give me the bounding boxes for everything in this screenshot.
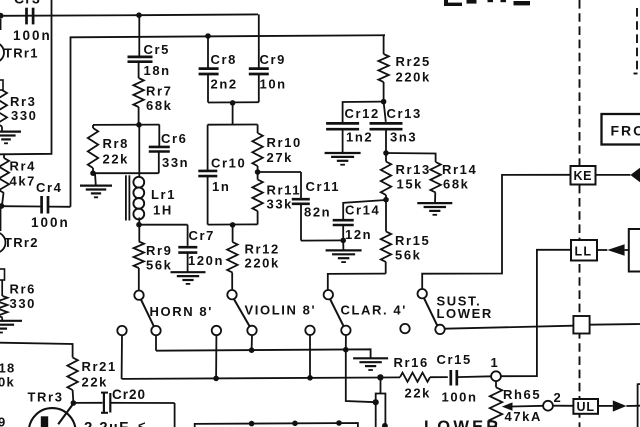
junction dot TRr3 collector bbox=[71, 400, 77, 406]
junction dot bus1/CLAR bbox=[343, 347, 349, 353]
svg-text:Cr4: Cr4 bbox=[36, 180, 62, 195]
HORN row idle contact bbox=[117, 326, 126, 335]
value 100n of Cr3 bbox=[13, 28, 52, 43]
label LOWER (sustain) bbox=[437, 306, 493, 321]
svg-text:100n: 100n bbox=[442, 390, 478, 405]
svg-text:TRr1: TRr1 bbox=[4, 46, 39, 61]
resistor Rr8 bbox=[88, 125, 98, 173]
svg-text:Rr16: Rr16 bbox=[394, 355, 429, 370]
wire HORN landing contact down to bus1 bbox=[155, 335, 157, 350]
resistor Rr14 bbox=[430, 162, 440, 203]
svg-text:Rr25: Rr25 bbox=[396, 54, 431, 69]
label Cr14 bbox=[345, 203, 380, 218]
junction dot at Cr14 bottom bbox=[340, 238, 346, 244]
svg-text:68k: 68k bbox=[146, 98, 173, 113]
svg-text:Rr3: Rr3 bbox=[10, 94, 36, 109]
svg-text:Rh65: Rh65 bbox=[503, 387, 541, 402]
svg-text:Cr15: Cr15 bbox=[437, 352, 472, 367]
value 27k of Rr10 bbox=[267, 150, 294, 165]
value 1n2 of Cr12 bbox=[346, 130, 373, 145]
svg-text:HORN 8': HORN 8' bbox=[150, 304, 213, 319]
junction dot bus2/output box bbox=[377, 374, 383, 380]
value 22k of Rr16 bbox=[405, 386, 432, 401]
SUST blade landing contact bbox=[435, 325, 444, 334]
svg-text:VIOLIN 8': VIOLIN 8' bbox=[245, 303, 317, 318]
label Cr4 bbox=[36, 180, 62, 195]
svg-text:Lr1: Lr1 bbox=[151, 187, 176, 202]
switch HORN 8' blade bbox=[141, 299, 154, 327]
junction dot bus1/VIOLIN bbox=[249, 347, 255, 353]
svg-text:22k: 22k bbox=[82, 375, 109, 390]
wire LL to arrow and right box bbox=[597, 249, 629, 251]
svg-text:120n: 120n bbox=[188, 253, 224, 268]
junction dot bottom bus 1 bbox=[249, 421, 255, 427]
label Rr3 bbox=[10, 94, 36, 109]
label Cr20 bbox=[112, 387, 146, 402]
svg-text:220k: 220k bbox=[396, 70, 431, 85]
ground below Rr8 bbox=[80, 173, 112, 197]
wire corner at right edge bbox=[638, 384, 640, 427]
resistor Rr7 bbox=[133, 62, 143, 125]
stub wire down to Cr10/Rr10 rail bbox=[232, 103, 234, 125]
capacitor Cr13 bbox=[370, 102, 403, 153]
label Cr5 bbox=[144, 42, 170, 57]
junction dot Rr10/Rr11/Cr11 bbox=[255, 169, 261, 175]
wire node B to Rr8 and Cr6 tops bbox=[93, 124, 160, 126]
capacitor Cr6 bbox=[149, 125, 170, 174]
component box at right edge bbox=[629, 229, 640, 272]
switch SUST blade bbox=[424, 298, 438, 326]
svg-text:220k: 220k bbox=[245, 256, 280, 271]
svg-text:Rr14: Rr14 bbox=[442, 162, 477, 177]
value 10n of Cr9 bbox=[260, 77, 287, 92]
VIOLIN blade landing contact bbox=[247, 326, 256, 335]
svg-text:9: 9 bbox=[0, 415, 7, 427]
svg-text:100n: 100n bbox=[13, 28, 52, 43]
wire from left node through Cr4 up to node A bbox=[2, 35, 386, 207]
wire Cr20 output down at x174 bbox=[174, 403, 176, 427]
label TRr3 bbox=[28, 390, 64, 405]
svg-text:56k: 56k bbox=[395, 248, 422, 263]
svg-text:1n: 1n bbox=[212, 179, 230, 194]
svg-text:Rr6: Rr6 bbox=[10, 282, 36, 297]
svg-text:10n: 10n bbox=[260, 77, 287, 92]
value 330 of Rr6 bbox=[10, 296, 37, 311]
svg-text:Cr14: Cr14 bbox=[345, 203, 380, 218]
svg-text:33n: 33n bbox=[162, 155, 189, 170]
arrow into KE line (from right edge) bbox=[630, 168, 640, 182]
value 220k of Rr25 bbox=[396, 70, 431, 85]
capacitor Cr9 with wire from top bus corner bbox=[249, 14, 269, 102]
pin label 2 bbox=[554, 390, 563, 405]
label Rr12 bbox=[245, 242, 280, 257]
arrow into LL line bbox=[607, 244, 624, 255]
value 220k of Rr12 bbox=[245, 256, 280, 271]
value 15k of Rr13 bbox=[397, 177, 424, 192]
wire rail Cr10-bottom to Rr11-bottom bbox=[208, 223, 258, 225]
wire CLAR landing contact down to bus1 bbox=[345, 335, 347, 350]
value 2.2uF of Cr20 (cut at bottom) bbox=[84, 418, 146, 427]
label Rr4 bbox=[10, 159, 36, 174]
svg-text:82n: 82n bbox=[304, 205, 331, 220]
value 1n of Cr10 bbox=[212, 179, 230, 194]
svg-text:1H: 1H bbox=[153, 203, 173, 218]
VIOLIN row wire2 contact bbox=[212, 326, 221, 335]
node dot at left edge on top wire bbox=[0, 13, 4, 19]
capacitor Cr12 bbox=[326, 123, 359, 152]
label Cr10 bbox=[211, 156, 246, 171]
CLAR row wire2 contact bbox=[305, 326, 314, 335]
wire KE line down to SUST switch bbox=[422, 175, 570, 289]
capacitor Cr7 bbox=[178, 225, 197, 272]
switch CLAR 4' blade bbox=[330, 299, 344, 327]
label TRr2 bbox=[4, 235, 39, 250]
label Rr16 bbox=[394, 355, 429, 370]
resistor Rr4 (half visible at left edge) bbox=[0, 154, 9, 205]
svg-text:Cr12: Cr12 bbox=[345, 106, 380, 121]
resistor Rr6 (half visible at left edge) bbox=[0, 280, 8, 320]
ground below Rr14 bbox=[417, 203, 452, 215]
label Cr7 bbox=[189, 228, 215, 243]
value 56k of Rr15 bbox=[395, 248, 422, 263]
label Rr13 bbox=[396, 162, 431, 177]
partial title text E040Z (cut at top edge) bbox=[444, 0, 530, 6]
label Cr11 bbox=[306, 179, 341, 194]
value 4k7 bbox=[10, 174, 37, 189]
value 1H of Lr1 bbox=[153, 203, 173, 218]
svg-text:Rr13: Rr13 bbox=[396, 162, 431, 177]
svg-text:1: 1 bbox=[491, 355, 500, 370]
resistor Rr10 bbox=[252, 125, 262, 173]
value 100n of Cr15 bbox=[442, 390, 478, 405]
capacitor Cr5 bbox=[128, 57, 153, 62]
svg-text:27k: 27k bbox=[267, 150, 294, 165]
output box (cut at bottom edge) bbox=[376, 377, 386, 427]
svg-text:18: 18 bbox=[0, 361, 16, 376]
box FROM (cut at right edge) bbox=[602, 114, 640, 145]
value 22k of Rr21 bbox=[82, 375, 109, 390]
svg-text:CLAR. 4': CLAR. 4' bbox=[341, 303, 407, 318]
svg-text:Cr6: Cr6 bbox=[161, 131, 187, 146]
label TRr1 bbox=[4, 46, 39, 61]
junction dot at Rr13 bottom bbox=[383, 197, 389, 203]
label Rr8 bbox=[103, 136, 129, 151]
wire LL line down to terminal 1 bbox=[501, 250, 571, 376]
wire bus2 to Rr16 bbox=[122, 377, 400, 379]
wire junction to Cr11 bbox=[258, 171, 301, 173]
svg-text:Rr21: Rr21 bbox=[82, 359, 117, 374]
CLAR blade landing contact bbox=[341, 326, 350, 335]
svg-text:LL: LL bbox=[575, 244, 593, 258]
capacitor Cr3 (in top wire) bbox=[27, 8, 34, 25]
arrow out of UL (pointing right) bbox=[613, 400, 627, 411]
value 33k of Rr11 bbox=[267, 197, 294, 212]
wire node C to Cr7 bbox=[139, 224, 188, 226]
ground below Rr3 bbox=[0, 132, 21, 144]
switch VIOLIN 8' upper contact bbox=[227, 290, 236, 299]
svg-text:330: 330 bbox=[11, 108, 38, 123]
svg-text:2n2: 2n2 bbox=[211, 77, 238, 92]
switch SUST upper contact bbox=[418, 289, 427, 298]
wire Rr8 bottom to Cr6 bottom bbox=[93, 172, 159, 174]
svg-text:2.2µF: 2.2µF bbox=[84, 419, 130, 427]
value 82n of Cr11 bbox=[304, 205, 331, 220]
wire collector to Cr20 bbox=[73, 402, 102, 404]
value 330 of Rr3 bbox=[11, 108, 38, 123]
junction dot on top bus bbox=[136, 12, 142, 18]
wire VIOLIN row contact down to bus2 bbox=[215, 335, 217, 378]
svg-text:Cr8: Cr8 bbox=[211, 52, 237, 67]
label Cr6 bbox=[161, 131, 187, 146]
label Cr9 bbox=[260, 52, 286, 67]
svg-text:Cr11: Cr11 bbox=[306, 179, 341, 194]
label Rh65 bbox=[503, 387, 541, 402]
capacitor Cr20 (electrolytic) bbox=[101, 392, 175, 414]
label Cr15 bbox=[437, 352, 472, 367]
svg-text:3n3: 3n3 bbox=[390, 130, 417, 145]
svg-text:UL: UL bbox=[577, 400, 595, 414]
wire Cr11 bottom to Cr14 bottom dot bbox=[301, 239, 343, 241]
capacitor Cr15 bbox=[451, 370, 492, 386]
label LOWER (bottom, cut at edge) bbox=[424, 418, 501, 427]
svg-text:LOWER: LOWER bbox=[437, 306, 493, 321]
ground on bus1 bbox=[353, 358, 388, 370]
value 3n3 of Cr13 bbox=[390, 130, 417, 145]
label Rr9 bbox=[146, 243, 172, 258]
wire top bus from left edge to Cr9 corner bbox=[0, 14, 258, 15]
dashed signal-flow separator line (vertical) bbox=[579, 0, 581, 427]
wire VIOLIN landing contact down to bus1 bbox=[251, 335, 253, 350]
wire rail Cr10-top to Rr10-top bbox=[208, 124, 258, 126]
svg-text:1n2: 1n2 bbox=[346, 130, 373, 145]
resistor Rr16 bbox=[400, 373, 448, 382]
svg-text:Cr20: Cr20 bbox=[112, 387, 146, 402]
value 12n of Cr14 bbox=[345, 227, 372, 242]
svg-text:15k: 15k bbox=[397, 177, 424, 192]
node dot at left edge (TRr2 collector node) bbox=[0, 203, 4, 209]
svg-text:Rr10: Rr10 bbox=[267, 135, 302, 150]
dashed line at right edge bbox=[634, 8, 638, 74]
wire bottom bus (top of cut box) bbox=[195, 423, 358, 427]
svg-text:Rr4: Rr4 bbox=[10, 159, 36, 174]
resistor Rr9 bbox=[134, 225, 144, 291]
value 120n of Cr7 bbox=[188, 253, 224, 268]
ground below Cr12 bbox=[325, 153, 361, 165]
svg-text:Cr13: Cr13 bbox=[387, 106, 422, 121]
value 68k of Rr14 bbox=[443, 177, 470, 192]
wire KE to arrow bbox=[596, 174, 631, 176]
junction dot bottom bus 2 bbox=[292, 421, 298, 427]
svg-text:Rr8: Rr8 bbox=[103, 136, 129, 151]
transistor TRr2 (mostly cut at left edge) bbox=[0, 209, 6, 254]
capacitor Cr14 bbox=[333, 220, 354, 240]
partial label of cut resistor at left edge (Rr18 10k) bbox=[0, 361, 16, 390]
wire junction to Rr14 top bbox=[386, 153, 436, 162]
junction dot node B bbox=[136, 122, 142, 128]
svg-text:33k: 33k bbox=[267, 197, 294, 212]
ground below Rr6 bbox=[0, 321, 22, 333]
transistor TRr1 (mostly cut at left edge) bbox=[0, 19, 4, 63]
resistor Rr21 bbox=[67, 358, 77, 403]
svg-text:TRr2: TRr2 bbox=[4, 235, 39, 250]
wire from top edge down at x=51 to Rr4 bbox=[0, 0, 52, 154]
label Rr6 bbox=[10, 282, 36, 297]
value 100n of Cr4 bbox=[31, 215, 70, 230]
svg-text:KE: KE bbox=[574, 169, 593, 183]
wire Rr25 bottom to Cr12 bbox=[343, 102, 384, 122]
svg-text:330: 330 bbox=[10, 296, 37, 311]
label Rr10 bbox=[267, 135, 302, 150]
junction dot bottom bus 3 bbox=[336, 420, 342, 426]
label Cr12 bbox=[345, 106, 380, 121]
junction dot at Rr8 bottom bbox=[90, 170, 96, 176]
value 22k of Rr8 bbox=[103, 152, 130, 167]
value 2n2 of Cr8 bbox=[211, 77, 238, 92]
junction dot between Cr8/Cr9 bottoms bbox=[230, 100, 236, 106]
svg-text:Rr9: Rr9 bbox=[146, 243, 172, 258]
switch VIOLIN 8' blade bbox=[234, 299, 250, 327]
terminal circle 2 bbox=[543, 401, 553, 411]
label Cr8 bbox=[211, 52, 237, 67]
svg-text:18n: 18n bbox=[144, 63, 171, 78]
svg-text:Rr11: Rr11 bbox=[267, 183, 302, 198]
svg-text:LOWER: LOWER bbox=[424, 418, 501, 427]
wire Rr15 bottom to CLAR switch bbox=[328, 274, 386, 290]
label Cr3 (cut at top edge) bbox=[14, 0, 41, 7]
svg-text:<: < bbox=[138, 418, 146, 427]
wire node B down to Lr1 bbox=[138, 125, 140, 178]
junction dot at Cr8 top bbox=[205, 33, 211, 39]
resistor Rr25 bbox=[378, 35, 388, 101]
coupling square on dashed line bbox=[573, 316, 589, 334]
label Lr1 bbox=[151, 187, 176, 202]
pin label 1 bbox=[491, 355, 500, 370]
potentiometer Rh65 bbox=[490, 381, 502, 427]
transistor TRr3 (cut at bottom edge) bbox=[29, 404, 76, 427]
svg-text:TRr3: TRr3 bbox=[28, 390, 64, 405]
wire UL to arrow to right edge bbox=[598, 405, 640, 407]
resistor Rr15 bbox=[381, 200, 391, 274]
junction dot bus2/CLAR-row bbox=[307, 375, 313, 381]
svg-text:22k: 22k bbox=[103, 152, 130, 167]
svg-text:0k: 0k bbox=[0, 375, 15, 390]
svg-text:100n: 100n bbox=[31, 215, 70, 230]
value 56k of Rr9 bbox=[146, 258, 173, 273]
svg-text:Cr5: Cr5 bbox=[144, 42, 170, 57]
switch HORN 8' upper contact bbox=[134, 291, 143, 300]
label Cr13 bbox=[387, 106, 422, 121]
value 18n of Cr5 bbox=[144, 63, 171, 78]
wiper arrow of Rh65 bbox=[502, 402, 543, 410]
value 68k of Rr7 bbox=[146, 98, 173, 113]
wire joining Cr8/Cr9 bottoms bbox=[208, 101, 259, 103]
wire Rr13 bottom to Cr14 top bbox=[343, 200, 386, 219]
svg-text:12n: 12n bbox=[345, 227, 372, 242]
capacitor Cr4 bbox=[42, 196, 48, 214]
box UL bbox=[573, 399, 598, 414]
value 47kA of Rh65 bbox=[505, 409, 542, 424]
resistor Rr3 (half visible at left edge) bbox=[0, 80, 7, 131]
resistor Rr11 bbox=[252, 172, 262, 225]
junction dot above Rr12 bbox=[230, 222, 236, 228]
svg-text:Cr7: Cr7 bbox=[189, 228, 215, 243]
HORN blade landing contact bbox=[151, 326, 160, 335]
svg-text:Cr9: Cr9 bbox=[260, 52, 286, 67]
wire coupling square to right edge bbox=[590, 323, 640, 326]
label Rr21 bbox=[82, 359, 117, 374]
svg-text:22k: 22k bbox=[405, 386, 432, 401]
wire HORN idle contact down to bus2 bbox=[121, 335, 123, 379]
svg-text:Rr12: Rr12 bbox=[245, 242, 280, 257]
svg-text:Cr10: Cr10 bbox=[211, 156, 246, 171]
junction dot on output box right side bbox=[382, 423, 388, 427]
junction dot node C at Lr1 bottom bbox=[136, 218, 142, 228]
junction dot bus2/HORN bbox=[213, 376, 219, 382]
capacitor Cr8 bbox=[199, 36, 219, 103]
wire CLAR row contact down to bus2 bbox=[309, 335, 311, 378]
SUST row idle contact bbox=[400, 324, 409, 333]
svg-text:56k: 56k bbox=[146, 258, 173, 273]
svg-text:47kA: 47kA bbox=[505, 409, 542, 424]
box LL bbox=[571, 240, 597, 261]
junction dot Cr13/Rr13/Rr14 bbox=[383, 150, 389, 156]
svg-text:FRO: FRO bbox=[611, 123, 640, 139]
switch CLAR 4' upper contact bbox=[324, 290, 333, 299]
svg-text:4k7: 4k7 bbox=[10, 174, 37, 189]
resistor Rr13 bbox=[381, 153, 391, 200]
junction dot at Rr25 bottom bbox=[381, 99, 387, 105]
terminal circle 1 bbox=[491, 371, 501, 381]
label VIOLIN 8' bbox=[245, 303, 317, 318]
label SUST. bbox=[437, 294, 482, 309]
resistor Rr12 bbox=[227, 225, 237, 290]
label CLAR. 4' bbox=[341, 303, 407, 318]
svg-text:Rr7: Rr7 bbox=[146, 84, 172, 99]
svg-text:Rr15: Rr15 bbox=[395, 233, 430, 248]
capacitor Cr11 bbox=[292, 172, 310, 241]
inductor Lr1 with iron core bbox=[126, 175, 144, 220]
wire bus1 (tone common to ground) bbox=[156, 349, 371, 358]
wire terminal 2 to UL bbox=[553, 405, 574, 407]
label HORN 8' bbox=[150, 304, 213, 319]
wire from top bus down to Cr5 bbox=[138, 15, 140, 56]
wire left edge to Rr21 bbox=[0, 343, 73, 358]
partial label 9 at left bottom edge bbox=[0, 415, 7, 427]
label Rr7 bbox=[146, 84, 172, 99]
junction dot on output box left side bbox=[373, 399, 379, 405]
label Rr25 bbox=[396, 54, 431, 69]
emitter stub box of TRr2 at left edge bbox=[0, 269, 5, 280]
svg-text:Cr3: Cr3 bbox=[14, 0, 41, 7]
wire SUST landing contact to coupling square bbox=[445, 326, 574, 329]
label Rr11 bbox=[267, 183, 302, 198]
ground below Cr7 bbox=[171, 272, 206, 284]
keying box KE bbox=[571, 166, 596, 185]
svg-text:2: 2 bbox=[554, 390, 563, 405]
wire CLAR node down to output box bbox=[346, 350, 376, 403]
label Rr15 bbox=[395, 233, 430, 248]
svg-text:68k: 68k bbox=[443, 177, 470, 192]
capacitor Cr10 bbox=[198, 125, 217, 225]
label Rr14 bbox=[442, 162, 477, 177]
value 33n of Cr6 bbox=[162, 155, 189, 170]
ground below Cr14 bbox=[326, 240, 362, 262]
